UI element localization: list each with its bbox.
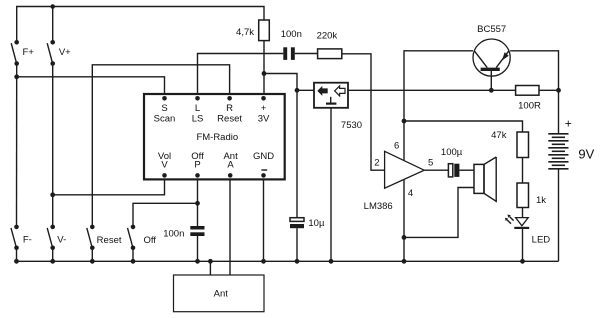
wire 7530 ground to rail bbox=[330, 108, 332, 261]
wire 7530 output to 100R / base node bbox=[348, 89, 516, 91]
svg-text:P: P bbox=[194, 160, 200, 171]
wire 4,7k bottom to 3V pin bbox=[263, 41, 265, 94]
node LM386 supply junction bbox=[402, 119, 407, 124]
pin GND bbox=[253, 151, 274, 178]
node F junction bbox=[14, 74, 19, 79]
resistor 1k bbox=[517, 183, 546, 208]
wire Off bottom to rail bbox=[132, 248, 134, 261]
node top rail / V+ junction bbox=[50, 4, 55, 9]
node rail Reset bbox=[90, 259, 95, 264]
pin 3V bbox=[258, 96, 270, 124]
switch Off bbox=[128, 225, 157, 251]
wire Scan pin net (junction to S pin) bbox=[17, 77, 165, 94]
svg-text:Scan: Scan bbox=[154, 113, 176, 124]
svg-text:9V: 9V bbox=[578, 146, 594, 161]
node rail Off bbox=[131, 259, 136, 264]
svg-text:LM386: LM386 bbox=[364, 201, 393, 212]
capacitor 100u electrolytic bbox=[441, 147, 463, 177]
svg-text:Reset: Reset bbox=[97, 235, 122, 246]
svg-text:+: + bbox=[565, 117, 572, 131]
capacitor 100n (bottom) bbox=[163, 226, 204, 240]
svg-text:100n: 100n bbox=[281, 29, 302, 40]
wire 3V junction to 10u / regulator branch bbox=[264, 74, 297, 218]
svg-text:100R: 100R bbox=[518, 101, 541, 112]
node rail 10u bbox=[295, 259, 300, 264]
pin Ant bbox=[223, 151, 238, 178]
wire 1k to LED bbox=[522, 208, 524, 218]
node rail LM386 pin4 bbox=[402, 259, 407, 264]
svg-text:S: S bbox=[161, 103, 167, 114]
wire Off switch branch up to P net bbox=[133, 203, 198, 227]
svg-text:+: + bbox=[261, 103, 267, 114]
svg-text:F-: F- bbox=[23, 235, 32, 246]
LED D1 bbox=[505, 215, 550, 246]
node rail 7530 ground bbox=[329, 259, 334, 264]
wire Vol pin net (junction to V pin) bbox=[53, 179, 165, 194]
pin S bbox=[154, 96, 176, 124]
wire LM386 pin 4 to rail bbox=[403, 179, 405, 261]
svg-text:BC557: BC557 bbox=[477, 24, 506, 35]
wire F- bottom to rail bbox=[16, 248, 18, 261]
switch V+ bbox=[47, 40, 71, 66]
IC FM-Radio module box bbox=[144, 94, 285, 179]
svg-text:A: A bbox=[227, 160, 234, 171]
pin Off bbox=[191, 151, 204, 178]
switch V- bbox=[47, 225, 66, 251]
node battery junction bbox=[556, 88, 561, 93]
node rail F- bbox=[14, 259, 19, 264]
wire base down to junction bbox=[490, 71, 492, 90]
svg-text:Ant: Ant bbox=[214, 289, 229, 300]
wire A pin to antenna box bbox=[229, 179, 231, 275]
svg-text:4: 4 bbox=[408, 188, 413, 199]
node base junction bbox=[489, 88, 494, 93]
svg-text:V: V bbox=[161, 160, 168, 171]
wire V+ feed from top rail bbox=[52, 7, 54, 43]
svg-text:6: 6 bbox=[394, 141, 399, 152]
wire LM386 output pin 5 to 100u bbox=[424, 169, 448, 171]
svg-text:100n: 100n bbox=[163, 229, 184, 240]
svg-text:5: 5 bbox=[428, 157, 433, 168]
node V junction bbox=[50, 192, 55, 197]
resistor 47k bbox=[491, 130, 528, 158]
wire LS pin to 100n coupling cap bbox=[198, 54, 284, 95]
node rail 100n bbox=[195, 259, 200, 264]
node P junction bbox=[195, 201, 200, 206]
resistor 220k bbox=[317, 31, 342, 59]
svg-text:V-: V- bbox=[57, 235, 66, 246]
wire battery bottom to rail bbox=[558, 169, 560, 261]
svg-text:10µ: 10µ bbox=[308, 218, 325, 229]
svg-text:V+: V+ bbox=[59, 47, 71, 58]
wire V- bottom to rail bbox=[52, 248, 54, 261]
wire 47k to 1k bbox=[522, 158, 524, 184]
node 3V junction bbox=[262, 71, 267, 76]
wire collector to LM386 supply node bbox=[404, 51, 473, 121]
capacitor 100n (top) bbox=[281, 29, 302, 60]
svg-text:2: 2 bbox=[374, 157, 379, 168]
svg-text:GND: GND bbox=[253, 151, 274, 162]
svg-text:7530: 7530 bbox=[341, 120, 362, 131]
wire emitter to battery + bbox=[510, 51, 558, 91]
svg-text:LS: LS bbox=[192, 113, 204, 124]
svg-text:F+: F+ bbox=[23, 47, 35, 58]
wire 10u to rail bbox=[296, 228, 298, 261]
node rail LED bbox=[520, 259, 525, 264]
node rail GND pin bbox=[261, 259, 266, 264]
node speaker return junction bbox=[402, 235, 407, 240]
svg-text:1k: 1k bbox=[536, 195, 546, 206]
pin L bbox=[192, 96, 204, 124]
node rail antenna ground bbox=[208, 259, 213, 264]
switch Reset bbox=[87, 225, 122, 251]
wire speaker return bbox=[404, 188, 474, 238]
svg-text:4,7k: 4,7k bbox=[236, 27, 254, 38]
battery BT1 9V bbox=[548, 117, 594, 169]
wire GND pin to rail bbox=[263, 179, 265, 261]
wire supply junction to LM386 pin 6 bbox=[403, 121, 405, 161]
regulator 7530 bbox=[314, 83, 362, 132]
wire junction to 7530 input bbox=[297, 89, 314, 91]
wire Reset pin net (Reset switch up and over to R pin) bbox=[92, 65, 229, 227]
wire antenna ground tap bbox=[209, 261, 211, 275]
node regulator input junction bbox=[295, 88, 300, 93]
wire 100n to 220k bbox=[295, 53, 318, 55]
switch F- bbox=[11, 225, 32, 251]
op-amp U1 LM386 bbox=[364, 141, 434, 212]
svg-text:47k: 47k bbox=[491, 130, 507, 141]
wire 100u to speaker bbox=[459, 169, 474, 171]
svg-text:Reset: Reset bbox=[217, 113, 242, 124]
pin Vol bbox=[158, 151, 171, 178]
svg-text:Off: Off bbox=[143, 235, 156, 246]
switch F+ bbox=[11, 40, 34, 66]
wire F+ bottom down through junction to F- top bbox=[16, 64, 18, 227]
wire supply junction to 47k bbox=[404, 121, 523, 132]
svg-text:3V: 3V bbox=[258, 113, 270, 124]
wire V+ bottom down to V- top bbox=[52, 64, 54, 227]
svg-text:LED: LED bbox=[532, 235, 551, 246]
wire top supply rail bbox=[17, 7, 264, 43]
wire 220k to LM386 pin 2 bbox=[342, 54, 385, 170]
capacitor 10u electrolytic bbox=[290, 218, 325, 229]
pin R bbox=[217, 96, 242, 124]
wire bottom ground rail bbox=[17, 260, 559, 262]
wire P pin down to 100n cap bbox=[197, 179, 199, 226]
antenna box Ant bbox=[174, 275, 265, 312]
wire battery junction down to battery top bbox=[558, 90, 560, 134]
wire 100n cap to ground rail bbox=[197, 236, 199, 261]
wire LED to rail bbox=[522, 229, 524, 261]
speaker LS1 bbox=[474, 157, 496, 201]
transistor Q1 BC557 bbox=[473, 24, 510, 76]
wire 100R to battery node bbox=[539, 89, 559, 91]
resistor 4,7k bbox=[236, 20, 269, 41]
resistor 100R bbox=[516, 86, 541, 112]
svg-text:220k: 220k bbox=[317, 31, 338, 42]
node rail V- bbox=[50, 259, 55, 264]
svg-text:R: R bbox=[226, 103, 233, 114]
wire Reset bottom to rail bbox=[91, 248, 93, 261]
svg-text:100µ: 100µ bbox=[441, 147, 463, 158]
svg-text:FM-Radio: FM-Radio bbox=[196, 132, 238, 143]
svg-text:L: L bbox=[195, 103, 200, 114]
